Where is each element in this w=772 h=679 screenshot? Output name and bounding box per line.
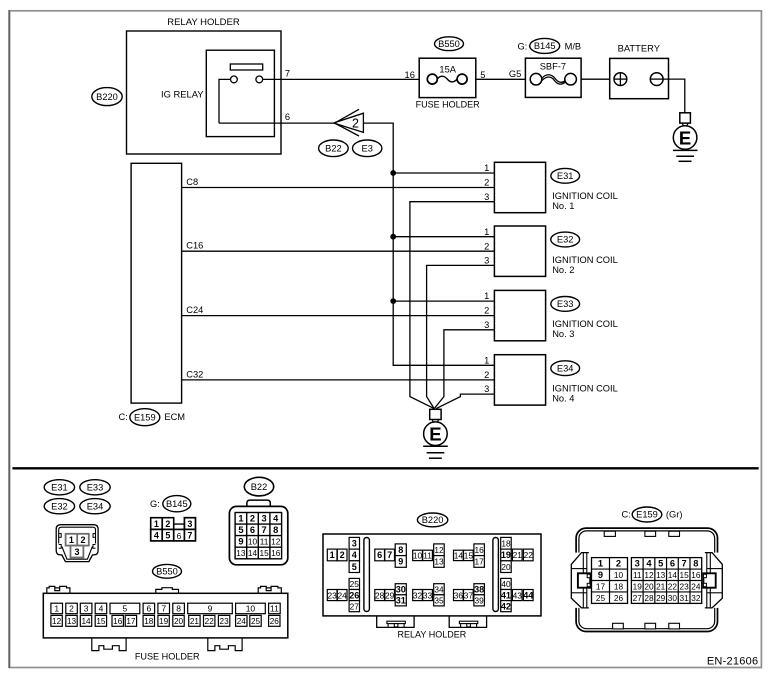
svg-text:9: 9 (598, 570, 603, 580)
connector ref E32 (551, 232, 580, 247)
svg-text:No. 2: No. 2 (552, 265, 574, 275)
wire: relay pin 6 to connector arrow (219, 112, 334, 123)
svg-text:12: 12 (52, 617, 62, 626)
svg-text:2: 2 (69, 603, 74, 613)
svg-text:26: 26 (270, 617, 280, 626)
wire: ignition coil 4 pin 3 to common ground (436, 394, 494, 409)
svg-text:3: 3 (187, 519, 192, 529)
svg-text:24: 24 (691, 582, 701, 592)
svg-text:B22: B22 (251, 482, 268, 492)
svg-text:C24: C24 (186, 305, 203, 315)
wire: fuse holder pin 5 to SBF-7 pin G5 (475, 69, 525, 79)
connector ref E31 (551, 168, 580, 183)
svg-text:15: 15 (96, 617, 106, 626)
svg-text:33: 33 (423, 590, 433, 600)
connector ref E33 (bottom) (80, 480, 110, 495)
svg-text:3: 3 (74, 547, 79, 557)
connector ref E31 (bottom) (44, 480, 74, 495)
svg-text:12: 12 (644, 570, 654, 580)
svg-text:32: 32 (413, 590, 423, 600)
svg-text:11: 11 (260, 537, 269, 547)
svg-text:(Gr): (Gr) (666, 510, 683, 520)
svg-text:4: 4 (273, 514, 279, 524)
wire: SBF-7 to battery (581, 78, 610, 80)
wire: ignition coil 2 pin 3 to common ground (427, 265, 495, 408)
svg-text:1: 1 (484, 356, 489, 366)
svg-text:44: 44 (523, 590, 534, 600)
svg-text:4: 4 (646, 559, 652, 569)
svg-text:23: 23 (328, 590, 338, 600)
ignition coil No.2 box (484, 226, 545, 276)
svg-text:27: 27 (350, 601, 360, 611)
svg-text:IGNITION COIL: IGNITION COIL (552, 255, 618, 265)
svg-text:22: 22 (205, 617, 215, 626)
svg-text:16: 16 (691, 570, 701, 580)
svg-text:13: 13 (434, 557, 444, 567)
svg-text:BATTERY: BATTERY (618, 43, 661, 54)
svg-text:1: 1 (484, 291, 489, 301)
svg-text:B220: B220 (422, 515, 444, 525)
svg-text:2: 2 (484, 241, 489, 251)
svg-text:1: 1 (484, 227, 489, 237)
svg-text:2: 2 (484, 178, 489, 188)
svg-text:FUSE HOLDER: FUSE HOLDER (135, 652, 200, 662)
svg-text:11: 11 (270, 603, 279, 613)
svg-text:34: 34 (434, 584, 444, 594)
svg-text:IGNITION COIL: IGNITION COIL (552, 319, 618, 329)
svg-text:2: 2 (80, 535, 85, 545)
ignition coil No.1 box (484, 162, 545, 212)
svg-text:26: 26 (349, 590, 359, 600)
svg-text:35: 35 (434, 596, 444, 606)
svg-text:E: E (679, 127, 691, 148)
svg-text:G:: G: (150, 499, 160, 509)
svg-text:2: 2 (484, 306, 489, 316)
ignition coil No.4 box (484, 355, 545, 405)
svg-text:13: 13 (656, 570, 666, 580)
connector B550 fuse holder face (26-pin) (43, 586, 287, 661)
svg-text:40: 40 (501, 579, 511, 589)
svg-text:12: 12 (271, 537, 281, 547)
svg-text:20: 20 (501, 562, 511, 572)
svg-text:28: 28 (644, 593, 654, 603)
svg-text:30: 30 (668, 593, 678, 603)
svg-text:14: 14 (668, 570, 678, 580)
connector ref E33 (551, 297, 580, 312)
svg-text:6: 6 (285, 112, 290, 122)
svg-text:3: 3 (352, 538, 357, 548)
svg-text:C8: C8 (186, 177, 198, 187)
svg-text:RELAY HOLDER: RELAY HOLDER (167, 17, 240, 28)
svg-text:1: 1 (154, 519, 159, 529)
svg-text:B145: B145 (534, 41, 556, 51)
svg-text:3: 3 (262, 514, 267, 524)
connector B220 relay holder face (44-pin) (323, 534, 541, 640)
svg-text:G:: G: (518, 41, 528, 51)
svg-text:14: 14 (81, 617, 91, 626)
ignition coil No.1 label (552, 191, 618, 211)
svg-text:21: 21 (656, 582, 666, 592)
svg-text:FUSE HOLDER: FUSE HOLDER (416, 99, 481, 109)
svg-text:15: 15 (464, 551, 474, 561)
svg-text:2: 2 (165, 519, 170, 529)
relay K1: IG RELAY (161, 50, 274, 136)
svg-text:25: 25 (350, 579, 360, 589)
svg-text:7: 7 (262, 525, 267, 535)
connector ref E3 (schematic) (353, 140, 382, 157)
ignition coil connector face (3-pin) (56, 525, 98, 562)
svg-text:14: 14 (248, 548, 258, 558)
connector ref B220 (bottom) (417, 513, 447, 527)
svg-text:1: 1 (54, 603, 59, 613)
svg-text:31: 31 (396, 596, 406, 606)
svg-text:27: 27 (633, 593, 643, 603)
svg-text:C:: C: (622, 510, 631, 520)
svg-text:14: 14 (454, 551, 464, 561)
connector B145 face (7-pin) (151, 518, 196, 541)
svg-text:8: 8 (176, 603, 181, 613)
svg-text:28: 28 (375, 590, 385, 600)
svg-text:4: 4 (154, 531, 159, 541)
svg-text:6: 6 (177, 531, 182, 541)
ignition coil No.4 label (552, 384, 618, 404)
svg-text:38: 38 (474, 584, 484, 594)
svg-text:E34: E34 (557, 363, 574, 373)
svg-text:2: 2 (250, 514, 255, 524)
svg-text:23: 23 (220, 617, 230, 626)
svg-text:EN-21606: EN-21606 (707, 655, 759, 667)
svg-text:8: 8 (693, 559, 698, 569)
svg-text:E3: E3 (362, 144, 373, 154)
svg-text:13: 13 (67, 617, 77, 626)
ECM ref C: E159 ECM (119, 409, 186, 426)
svg-text:1: 1 (598, 559, 603, 569)
svg-text:10: 10 (248, 537, 258, 547)
svg-text:31: 31 (680, 593, 690, 603)
svg-text:11: 11 (423, 551, 432, 561)
svg-text:8: 8 (398, 545, 403, 555)
ground E (ignition coils) (423, 409, 448, 458)
svg-text:19: 19 (501, 550, 511, 560)
svg-text:9: 9 (208, 603, 213, 613)
connector ref G: B145 (bottom) (150, 496, 191, 512)
svg-text:6: 6 (146, 603, 151, 613)
wire C32: ECM to ignition coil pin 2 (182, 369, 495, 380)
svg-text:1: 1 (484, 163, 489, 173)
svg-text:B145: B145 (166, 499, 188, 509)
svg-text:No. 3: No. 3 (552, 329, 574, 339)
svg-text:2: 2 (484, 370, 489, 380)
svg-text:6: 6 (250, 525, 255, 535)
svg-text:16: 16 (113, 617, 123, 626)
svg-text:18: 18 (614, 582, 624, 592)
svg-text:10: 10 (614, 570, 624, 580)
svg-text:16: 16 (475, 545, 485, 555)
svg-text:3: 3 (484, 384, 489, 394)
svg-text:11: 11 (633, 570, 642, 580)
svg-text:20: 20 (174, 617, 184, 626)
svg-text:10: 10 (413, 551, 423, 561)
svg-text:No. 4: No. 4 (552, 394, 574, 404)
svg-text:24: 24 (237, 617, 247, 626)
svg-text:2: 2 (616, 559, 621, 569)
wire: relay pin 7 to fuse holder pin 16 (263, 68, 420, 79)
wire: battery to ground E (663, 79, 685, 113)
ignition coil No.3 label (552, 319, 618, 339)
wire: ignition coil 3 pin 3 to common ground (434, 330, 494, 409)
svg-text:E33: E33 (87, 483, 104, 493)
svg-text:13: 13 (236, 548, 246, 558)
svg-text:17: 17 (126, 617, 136, 626)
svg-text:41: 41 (501, 590, 511, 600)
wire: bus to ignition coil 2 pin 1 with junction dot (390, 234, 494, 240)
svg-text:E: E (429, 424, 441, 445)
svg-text:21: 21 (190, 617, 200, 626)
svg-text:16: 16 (405, 70, 415, 80)
svg-text:16: 16 (271, 548, 281, 558)
battery (610, 43, 669, 99)
svg-text:10: 10 (246, 603, 256, 613)
svg-text:5: 5 (480, 70, 485, 80)
svg-text:SBF-7: SBF-7 (540, 61, 566, 71)
svg-text:IGNITION COIL: IGNITION COIL (552, 191, 618, 201)
svg-text:7: 7 (187, 531, 192, 541)
svg-text:No. 1: No. 1 (552, 201, 574, 211)
svg-text:IG RELAY: IG RELAY (161, 89, 204, 100)
svg-text:E32: E32 (557, 235, 574, 245)
main fuse SBF-7 in M/B (518, 38, 582, 97)
svg-text:25: 25 (251, 617, 261, 626)
svg-text:15: 15 (259, 548, 269, 558)
svg-text:B550: B550 (438, 39, 460, 49)
svg-text:39: 39 (475, 596, 485, 606)
svg-text:32: 32 (691, 593, 701, 603)
wire C8: ECM to ignition coil pin 2 (182, 177, 495, 188)
connector B22 face (16-pin) (229, 500, 287, 565)
connector ref B220 (schematic) (92, 88, 122, 106)
svg-text:3: 3 (635, 559, 640, 569)
svg-text:36: 36 (454, 590, 464, 600)
svg-text:B220: B220 (96, 92, 118, 102)
svg-text:1: 1 (69, 535, 74, 545)
svg-text:9: 9 (398, 557, 403, 567)
svg-text:3: 3 (484, 192, 489, 202)
svg-text:42: 42 (501, 601, 511, 611)
svg-text:25: 25 (596, 593, 606, 603)
svg-text:21: 21 (513, 550, 523, 560)
wire bus: connector to ignition coil pin 1 feeds (363, 123, 494, 365)
svg-text:30: 30 (396, 584, 406, 594)
svg-text:15: 15 (680, 570, 690, 580)
svg-text:5: 5 (165, 531, 170, 541)
connector ref B550 (schematic) (435, 37, 464, 51)
svg-text:2: 2 (340, 550, 345, 560)
svg-text:2: 2 (352, 117, 359, 131)
svg-text:E33: E33 (557, 299, 574, 309)
connector ref E32 (bottom) (44, 499, 74, 514)
connector E159 ECM face (32-pin) (571, 528, 722, 631)
svg-text:5: 5 (123, 603, 128, 613)
svg-text:RELAY HOLDER: RELAY HOLDER (398, 630, 467, 640)
svg-text:7: 7 (682, 559, 687, 569)
svg-text:E31: E31 (557, 171, 574, 181)
svg-text:29: 29 (656, 593, 666, 603)
wire C24: ECM to ignition coil pin 2 (182, 305, 495, 316)
svg-text:E34: E34 (87, 501, 104, 511)
svg-text:IGNITION COIL: IGNITION COIL (552, 384, 618, 394)
svg-text:23: 23 (680, 582, 690, 592)
svg-text:5: 5 (658, 559, 663, 569)
svg-text:29: 29 (385, 590, 395, 600)
svg-text:9: 9 (238, 537, 243, 547)
svg-text:18: 18 (501, 538, 511, 548)
svg-text:15A: 15A (439, 65, 456, 75)
svg-text:3: 3 (484, 320, 489, 330)
wire: bus to ignition coil 3 pin 1 with junction dot (390, 298, 494, 304)
svg-text:C:: C: (119, 412, 128, 422)
connector ref B550 (bottom) (153, 564, 182, 578)
svg-text:E31: E31 (51, 483, 68, 493)
svg-text:18: 18 (144, 617, 154, 626)
svg-text:5: 5 (352, 562, 357, 572)
svg-text:22: 22 (524, 550, 534, 560)
wire: bus to ignition coil 1 pin 1 with junction dot (390, 170, 494, 176)
wire C16: ECM to ignition coil pin 2 (182, 241, 495, 252)
svg-text:17: 17 (596, 582, 606, 592)
svg-text:37: 37 (464, 590, 474, 600)
connector ref C: E159 (Gr) (bottom) (622, 507, 683, 522)
svg-text:B22: B22 (325, 144, 342, 154)
svg-text:22: 22 (668, 582, 678, 592)
ECM box (131, 163, 182, 403)
svg-text:1: 1 (330, 550, 335, 560)
svg-text:12: 12 (434, 545, 444, 555)
svg-text:E32: E32 (51, 501, 68, 511)
svg-text:5: 5 (238, 525, 243, 535)
connector ref E34 (bottom) (80, 499, 110, 514)
ground E (battery side) (673, 113, 698, 162)
svg-text:17: 17 (475, 557, 485, 567)
svg-text:G5: G5 (509, 69, 521, 79)
svg-text:7: 7 (285, 68, 290, 78)
inline connector symbol pin 2 (B22/E3) (334, 109, 364, 136)
connector ref B22 (schematic) (319, 140, 349, 157)
svg-text:C16: C16 (186, 241, 203, 251)
svg-text:M/B: M/B (565, 41, 582, 51)
svg-text:3: 3 (84, 603, 89, 613)
svg-text:7: 7 (387, 550, 392, 560)
drawing number EN-21606 (707, 655, 759, 667)
svg-text:7: 7 (161, 603, 166, 613)
svg-text:8: 8 (273, 525, 278, 535)
ignition coil No.3 box (484, 290, 545, 340)
svg-text:43: 43 (513, 590, 523, 600)
svg-text:ECM: ECM (164, 412, 185, 422)
svg-text:20: 20 (644, 582, 654, 592)
connector ref B22 (bottom) (244, 477, 273, 496)
svg-text:19: 19 (159, 617, 169, 626)
svg-text:3: 3 (484, 256, 489, 266)
ignition coil No.2 label (552, 255, 618, 275)
svg-text:6: 6 (670, 559, 675, 569)
svg-text:4: 4 (99, 603, 104, 613)
relay holder B220 box (127, 17, 282, 154)
wire: ignition coil 1 pin 3 to common ground (410, 202, 495, 409)
svg-text:24: 24 (338, 590, 348, 600)
svg-text:C32: C32 (186, 369, 203, 379)
svg-text:E159: E159 (134, 412, 156, 422)
svg-text:6: 6 (377, 550, 382, 560)
svg-text:1: 1 (238, 514, 243, 524)
fuse holder with 15A fuse (405, 58, 486, 109)
svg-text:19: 19 (633, 582, 643, 592)
connector ref E34 (551, 361, 580, 376)
svg-text:B550: B550 (156, 567, 178, 577)
svg-text:26: 26 (614, 593, 624, 603)
svg-text:E159: E159 (636, 510, 658, 520)
